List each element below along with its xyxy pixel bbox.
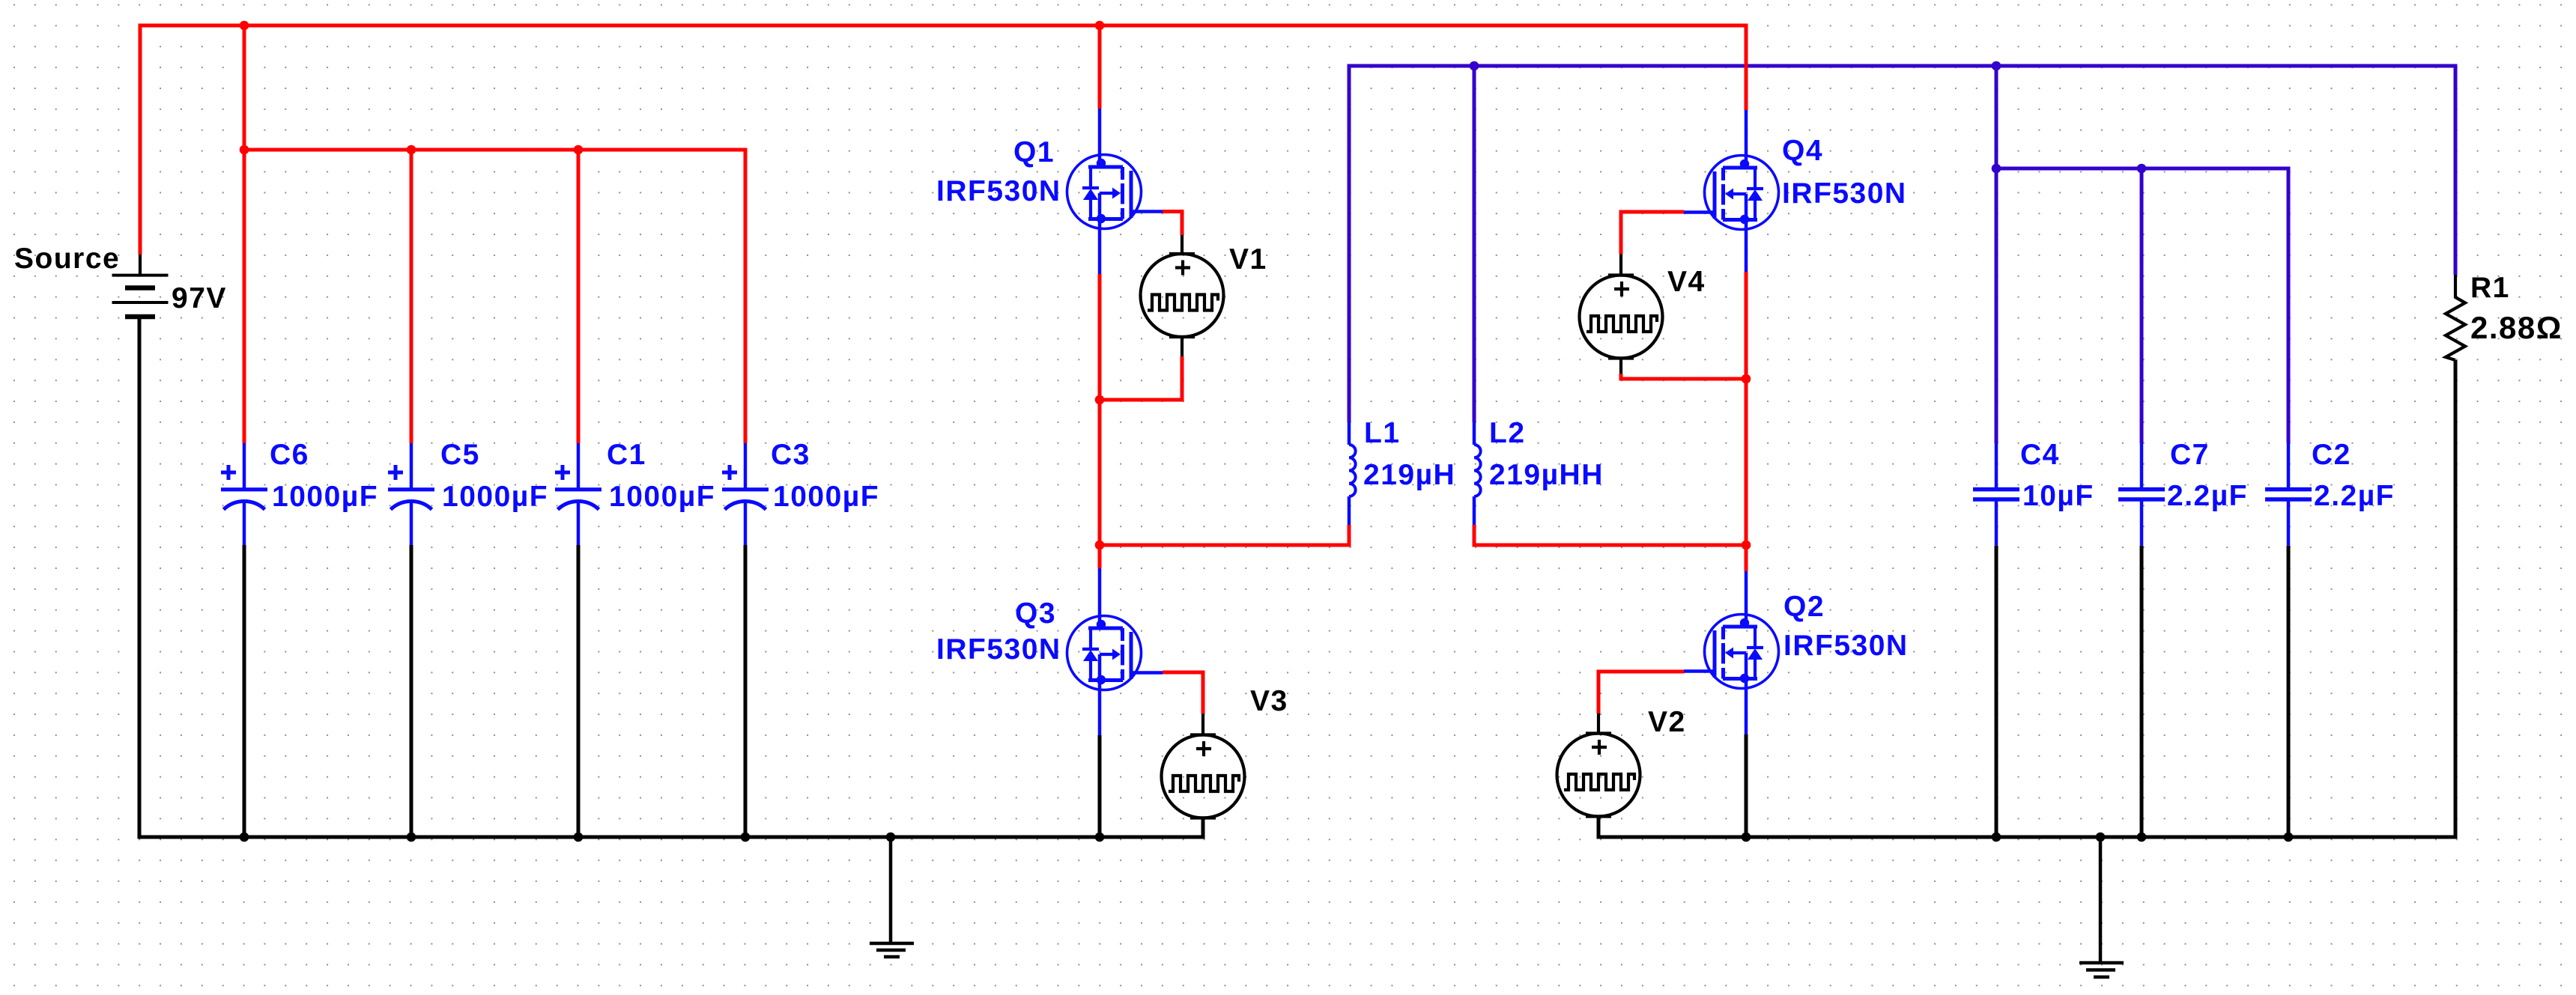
- junction cap rail at C1: [574, 145, 584, 155]
- capacitor C3: [722, 443, 769, 545]
- junction ground rail at C6: [240, 833, 249, 842]
- svg-text:IRF530N: IRF530N: [936, 633, 1061, 666]
- svg-text:2.88Ω: 2.88Ω: [2470, 310, 2563, 345]
- svg-text:C1: C1: [607, 439, 646, 471]
- ground left: [870, 837, 914, 957]
- junction filter rail at C4: [1992, 164, 2001, 174]
- svg-text:97V: 97V: [172, 282, 227, 314]
- transistor Q4 IRF530N: [1684, 110, 1779, 272]
- wire C4 bottom: [1995, 546, 1998, 837]
- svg-text:L1: L1: [1364, 417, 1401, 449]
- junction output rail at C4: [1992, 61, 2001, 71]
- wire Q2 gate to V2: [1598, 672, 1684, 713]
- junction ground rail at C1: [574, 833, 584, 842]
- junction midpoint at Q1-Q3 column: [1095, 541, 1105, 550]
- wire C4 riser: [1995, 66, 1998, 443]
- junction midpoint at Q4-Q2 column: [1742, 541, 1751, 550]
- capacitor C6: [221, 443, 267, 545]
- junction ground rail at C7: [2137, 833, 2147, 842]
- svg-text:V4: V4: [1667, 266, 1706, 298]
- pulse source V3: [1162, 714, 1245, 838]
- junction output rail at L2: [1470, 61, 1479, 71]
- svg-text:10µF: 10µF: [2022, 480, 2094, 512]
- capacitor C5: [388, 443, 434, 545]
- pulse source V1: [1141, 235, 1224, 356]
- capacitor C4: [1973, 443, 2019, 546]
- svg-text:1000µF: 1000µF: [442, 481, 548, 513]
- svg-text:1000µF: 1000µF: [773, 481, 879, 513]
- junction V1 minus node: [1095, 395, 1105, 405]
- capacitor C2: [2265, 443, 2312, 546]
- wire midpoint to L1: [1100, 525, 1349, 545]
- transistor Q1 IRF530N: [1067, 109, 1163, 274]
- junction ground rail at C5: [407, 833, 416, 842]
- wire C2 bottom: [2287, 546, 2291, 837]
- junction ground rail at Q3 source: [1095, 833, 1105, 842]
- wire Q1 drain stub: [1098, 25, 1102, 109]
- wire capacitor bank rail with C3 drop: [244, 150, 745, 443]
- junction V4 minus node: [1742, 374, 1751, 384]
- wire C1 riser: [577, 150, 581, 443]
- transistor Q2 IRF530N: [1684, 571, 1779, 734]
- wire Q4-Q2 midpoint column: [1745, 272, 1748, 571]
- capacitor C7: [2118, 443, 2165, 546]
- resistor R1: [2446, 275, 2465, 360]
- wire V1 minus to midpoint: [1100, 356, 1182, 400]
- wire Q1-Q3 midpoint column: [1098, 274, 1102, 568]
- wire output net blue rail: [1349, 66, 2455, 422]
- junction filter rail at C7: [2137, 164, 2147, 174]
- svg-text:V1: V1: [1229, 243, 1267, 276]
- wire V+ top rail: [140, 25, 1746, 255]
- svg-text:Q4: Q4: [1782, 135, 1823, 167]
- svg-text:IRF530N: IRF530N: [1783, 630, 1909, 662]
- junction ground rail at Q2 source: [1742, 833, 1751, 842]
- junction top rail at C6 riser: [240, 21, 249, 31]
- pulse source V2: [1557, 713, 1640, 837]
- capacitor C1: [555, 443, 601, 545]
- svg-text:1000µF: 1000µF: [609, 481, 715, 513]
- svg-text:C6: C6: [270, 439, 309, 471]
- svg-text:V2: V2: [1648, 706, 1686, 738]
- wire C5 bottom: [410, 545, 413, 837]
- wire Q4 gate to V4: [1621, 212, 1684, 255]
- svg-text:1000µF: 1000µF: [272, 481, 378, 513]
- wire C7 bottom: [2140, 546, 2144, 837]
- transistor Q3 IRF530N: [1067, 568, 1163, 735]
- wire L2 top riser: [1473, 66, 1476, 422]
- junction ground rail at left ground: [886, 833, 896, 842]
- svg-text:C2: C2: [2312, 439, 2351, 471]
- svg-text:IRF530N: IRF530N: [936, 175, 1061, 207]
- svg-text:C4: C4: [2020, 439, 2060, 471]
- wire V4 minus to Q4 source: [1621, 374, 1746, 379]
- inductor L2: [1474, 422, 1481, 525]
- svg-text:V3: V3: [1250, 685, 1288, 717]
- wire Q3 source to ground rail: [1098, 735, 1102, 837]
- svg-text:C5: C5: [440, 439, 480, 471]
- wire C6 riser: [243, 25, 246, 443]
- wire Q1 gate to V1: [1163, 212, 1182, 236]
- wire Q2 source to ground rail: [1745, 734, 1748, 837]
- junction cap rail at C6: [240, 145, 249, 155]
- svg-text:2.2µF: 2.2µF: [2167, 480, 2248, 512]
- junction ground rail at C3: [741, 833, 751, 842]
- wire Q3 gate to V3: [1163, 672, 1203, 714]
- pulse source V4: [1580, 255, 1663, 374]
- wire L2 to Q4-Q2 midpoint: [1474, 525, 1746, 545]
- svg-text:Source: Source: [14, 243, 120, 275]
- svg-text:R1: R1: [2470, 272, 2510, 304]
- svg-text:219µHH: 219µHH: [1489, 459, 1604, 491]
- junction ground rail at C2: [2284, 833, 2294, 842]
- inductor L1: [1349, 422, 1356, 525]
- svg-text:Q2: Q2: [1783, 591, 1825, 623]
- svg-text:Q3: Q3: [1015, 597, 1056, 630]
- svg-text:L2: L2: [1489, 417, 1526, 449]
- wire C7 riser: [2140, 168, 2144, 443]
- wire C5 riser: [410, 150, 413, 443]
- junction ground rail at C4: [1992, 833, 2001, 842]
- svg-text:2.2µF: 2.2µF: [2314, 480, 2395, 512]
- junction cap rail at C5: [407, 145, 416, 155]
- wire bottom ground rail left: [139, 317, 1203, 837]
- wire bottom ground rail right: [1598, 360, 2455, 837]
- wire right filter rail with C2 drop: [1996, 168, 2288, 443]
- wire C1 bottom: [577, 545, 581, 837]
- junction top rail at Q1 drain: [1095, 21, 1105, 31]
- wire C6 bottom: [243, 545, 246, 837]
- svg-text:219µH: 219µH: [1363, 459, 1455, 491]
- battery Source 97V: [112, 255, 169, 317]
- ground right: [2079, 837, 2124, 977]
- svg-text:Q1: Q1: [1013, 136, 1055, 168]
- wire C3 bottom: [744, 545, 748, 837]
- svg-text:C3: C3: [771, 439, 810, 471]
- svg-text:C7: C7: [2170, 439, 2210, 471]
- svg-text:IRF530N: IRF530N: [1782, 177, 1907, 210]
- junction ground rail at right ground: [2096, 833, 2106, 842]
